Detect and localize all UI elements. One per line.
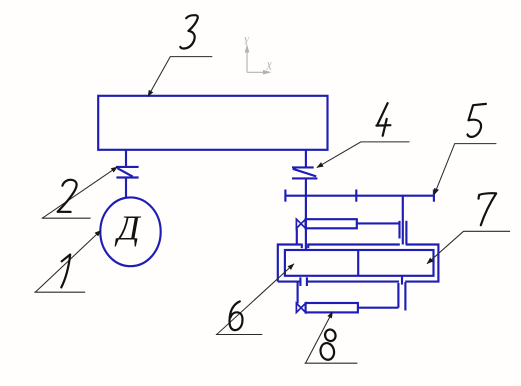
leader label 1 (34, 230, 101, 292)
wire pinion 6 to right gear shaft (357, 222, 400, 224)
gear mesh tick right-bottom (401, 276, 403, 285)
gear flank line left-top (296, 228, 298, 244)
svg-text:Д: Д (114, 209, 141, 248)
motor letter D (114, 209, 141, 248)
divider between gears (357, 250, 359, 276)
svg-text:X: X (265, 62, 273, 73)
label digit 6 (230, 301, 243, 330)
leader label 7 (427, 231, 510, 263)
coupling 2 (elastic coupling zigzag) (116, 167, 139, 178)
gear flank line left-bottom (297, 282, 299, 304)
wire coupling 4 to shaft 5 / input shaft down to gearbox (305, 178, 307, 250)
gear flank line right-bottom A (397, 283, 399, 308)
shaft 5 horizontal line (285, 195, 434, 197)
svg-text:Y: Y (244, 37, 251, 48)
machine frame box 3 (98, 96, 327, 150)
second shaft vertical from shaft 5 (402, 196, 404, 245)
gear mesh ticks left-top (302, 244, 308, 249)
top pinion 6 rectangle (306, 219, 357, 228)
leader label 3 (148, 57, 212, 97)
shaft 5 right end tick (433, 190, 435, 202)
wire from frame to coupling 4 (305, 150, 307, 168)
wire pinion 8 to right gear shaft (358, 307, 399, 309)
label digit 4 (376, 103, 390, 136)
label digit 1 (61, 255, 70, 288)
shaft 5 middle tick (355, 190, 357, 202)
gear flank line right-top B (405, 221, 407, 245)
bottom pinion 8 rectangle (306, 303, 358, 312)
leader label 2 (42, 167, 118, 218)
shaft 5 left end tick (284, 190, 286, 202)
coordinate axes icon (245, 46, 269, 74)
label digit 8 (319, 328, 337, 361)
label digit 5 (468, 104, 486, 137)
leader label 6 (216, 264, 294, 335)
wire from frame to coupling 2 (125, 150, 127, 167)
gear mesh ticks left-bottom (300, 277, 307, 286)
outer gearbox rect with gaps (278, 245, 439, 282)
leader label 8 (305, 312, 358, 364)
bowtie clamp on output pinion (296, 303, 305, 312)
label digit 2 (58, 180, 77, 212)
inner gear block rect 7 (285, 250, 434, 276)
wire coupling 2 to motor (125, 178, 127, 199)
motor circle 1 (100, 197, 160, 266)
leader label 4 (317, 142, 410, 168)
label digit 3 (180, 15, 198, 48)
gear flank line right-top A (398, 221, 400, 239)
bowtie clamp on input pinion (296, 219, 305, 228)
gear flank line right-bottom B (404, 282, 406, 311)
coupling 4 (elastic coupling zigzag) (292, 167, 317, 178)
leader label 5 (434, 144, 496, 195)
label digit 7 (479, 193, 497, 225)
